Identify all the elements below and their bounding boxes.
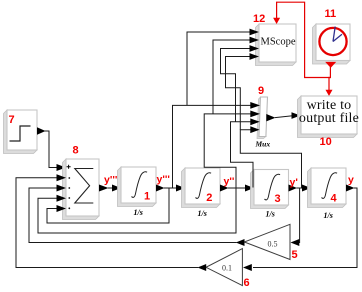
output port arrow of integrator 1 [156, 185, 165, 192]
MScope block 12 [259, 24, 296, 62]
svg-text:y'': y'' [224, 176, 235, 188]
wire tap y2prime at block3 input to Mux input 3 [231, 122, 254, 188]
arrowhead into gain 5 input [291, 239, 300, 246]
svg-text:Mux: Mux [255, 140, 271, 149]
feedback wire y2prime to sum input 4 [38, 188, 236, 233]
red activation wire clock to write block [329, 78, 330, 91]
wire sum to integrator 1 [108, 187, 113, 189]
wire integrator1 to integrator2 [164, 187, 177, 189]
arrowhead into sum input 4 [57, 195, 67, 202]
arrowhead into sum input 1 [57, 164, 67, 171]
svg-text:9: 9 [258, 85, 264, 97]
step source block 7 shadow [4, 110, 38, 154]
clock output port arrow red [325, 62, 336, 68]
svg-text:8: 8 [73, 145, 79, 157]
output port arrow of sum [99, 185, 109, 192]
svg-text:1/s: 1/s [198, 209, 207, 218]
svg-text:y''': y''' [157, 174, 170, 186]
arrowhead into Mux input 3 [250, 118, 259, 125]
red arrowhead into MScope top [273, 18, 280, 24]
svg-text:2: 2 [206, 192, 212, 204]
arrowhead into Mux input 1 [250, 102, 260, 109]
arrowhead into MScope input 3 [250, 45, 260, 52]
write to output file block 10 shadow [298, 96, 358, 138]
arrowhead into Mux input 2 [250, 111, 260, 118]
wire scope riser 4 [226, 57, 251, 130]
output port arrow of integrator 4 [346, 185, 355, 192]
svg-text:0.1: 0.1 [222, 264, 232, 273]
integrator block 3 shadow [251, 170, 289, 209]
integrator block 3 [254, 170, 289, 206]
arrowhead into sum input 3 [57, 185, 67, 192]
arrowhead into MScope input 2 [250, 37, 260, 44]
output port arrow of block 7 [37, 127, 46, 135]
svg-text:4: 4 [331, 193, 338, 205]
gain 6 output port arrow [198, 264, 207, 271]
svg-text:1/s: 1/s [134, 208, 143, 217]
svg-text:5: 5 [292, 249, 298, 261]
wire tap y2prime to Mux input 2 [204, 114, 251, 188]
output port arrow of integrator 3 [289, 185, 298, 192]
feedback wire gain6 to sum input 2 [16, 178, 198, 268]
output port arrow of integrator 2 [220, 185, 229, 192]
red activation wire clock to MScope [277, 2, 331, 77]
wire tap riser y3prime to Mux input 1 [173, 105, 252, 188]
wire y to gain 6 input [253, 188, 357, 268]
MScope block 12 shadow [256, 24, 297, 66]
integrator block 2 [185, 168, 220, 204]
svg-text:y: y [348, 174, 354, 186]
wire scope riser 1 [187, 32, 251, 105]
svg-text:12: 12 [253, 13, 265, 25]
svg-text:10: 10 [320, 136, 332, 148]
Mux output port arrow [266, 114, 275, 121]
gain 5 output port arrow [236, 239, 245, 246]
summation block 8 shadow [63, 159, 100, 220]
integrator block 4 shadow [308, 168, 347, 208]
clock block 11 shadow [313, 24, 351, 64]
arrowhead into sum input 2 [57, 174, 67, 181]
integrator block 1 shadow [118, 167, 157, 207]
arrowhead into MScope input 4 [250, 53, 260, 60]
arrowhead into integrator 1 [112, 185, 121, 192]
svg-text:11: 11 [325, 8, 337, 20]
svg-text:MScope: MScope [261, 37, 296, 48]
svg-text:6: 6 [244, 277, 250, 289]
feedback wire y3prime to sum input 5 [47, 188, 169, 223]
feedback wire gain5 to sum input 3 [29, 188, 237, 243]
Mux block 9 [259, 97, 268, 137]
svg-text:output file: output file [299, 111, 359, 126]
gain block 5 triangle [244, 224, 290, 259]
wire integrator3 to integrator4 [297, 187, 304, 189]
wire y1prime down to gain 5 input [298, 188, 300, 243]
arrowhead into integrator 4 [302, 185, 311, 192]
wire Mux to write block [275, 116, 293, 118]
step source block 7 [7, 110, 37, 150]
arrowhead into MScope input 1 [250, 29, 260, 36]
integrator block 4 [311, 168, 346, 204]
arrowhead into integrator 3 [245, 185, 254, 192]
wire scope riser 2 [213, 40, 251, 114]
svg-text:1: 1 [144, 191, 150, 203]
arrowhead into sum input 5 [57, 205, 67, 212]
svg-text:1/s: 1/s [266, 210, 275, 219]
red arrowhead into write block top [326, 90, 333, 96]
integrator block 1 [121, 167, 156, 203]
arrowhead into Mux input 4 [250, 126, 259, 133]
wire scope riser 3 [221, 49, 251, 122]
arrowhead into gain 6 input [243, 264, 252, 271]
wire tap y1prime to Mux input 4 [240, 130, 301, 188]
wire step to sum [45, 131, 59, 168]
wire integrator2 to integrator3 [228, 187, 246, 189]
svg-text:7: 7 [9, 114, 15, 126]
svg-text:3: 3 [275, 193, 281, 205]
arrowhead into integrator 2 [176, 185, 185, 192]
svg-text:0.5: 0.5 [268, 240, 278, 249]
arrowhead into write block [292, 112, 301, 119]
Mux block 9 shadow [257, 97, 266, 139]
write to output file block 10 [299, 96, 359, 134]
gain block 6 triangle [206, 249, 242, 286]
clock block 11 [316, 24, 350, 61]
svg-text:1/s: 1/s [324, 211, 333, 220]
summation block 8 [66, 159, 99, 216]
integrator block 2 shadow [182, 168, 221, 208]
svg-text:y': y' [290, 177, 298, 189]
